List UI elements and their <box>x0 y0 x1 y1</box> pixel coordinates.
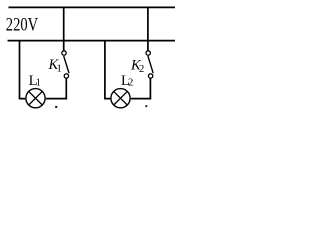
switch K2 bottom terminal <box>148 74 152 78</box>
wire branch 1 drop from second rail to lamp L1 <box>20 41 26 99</box>
stray mark right <box>145 105 147 107</box>
svg-text:2: 2 <box>139 64 144 75</box>
svg-text:220V: 220V <box>6 14 39 35</box>
wire lamp L1 right side to switch K1 <box>46 98 67 100</box>
switch K2 blade <box>148 56 153 73</box>
wire from K1 bottom terminal down to lamp row <box>65 78 67 98</box>
wire branch 1 drop from top rail to switch K1 <box>63 7 65 51</box>
wire branch 2 drop from second rail to lamp L2 <box>105 41 111 99</box>
wire lamp L2 right side to switch K2 <box>131 98 151 100</box>
stray mark left <box>55 106 57 108</box>
wire top supply rail <box>9 6 176 8</box>
lamp L1 <box>26 89 45 108</box>
switch K1 bottom terminal <box>64 74 68 78</box>
svg-text:2: 2 <box>128 77 133 88</box>
svg-text:1: 1 <box>36 77 41 88</box>
switch K1 blade <box>64 56 69 73</box>
switch K2 top terminal <box>146 51 150 55</box>
wire from K2 bottom terminal down to lamp row <box>149 78 151 98</box>
lamp L2 <box>111 89 130 108</box>
svg-text:1: 1 <box>57 64 62 75</box>
switch K1 top terminal <box>62 51 66 55</box>
wire branch 2 drop from top rail to switch K2 <box>147 7 149 51</box>
wire second supply rail <box>8 40 176 42</box>
